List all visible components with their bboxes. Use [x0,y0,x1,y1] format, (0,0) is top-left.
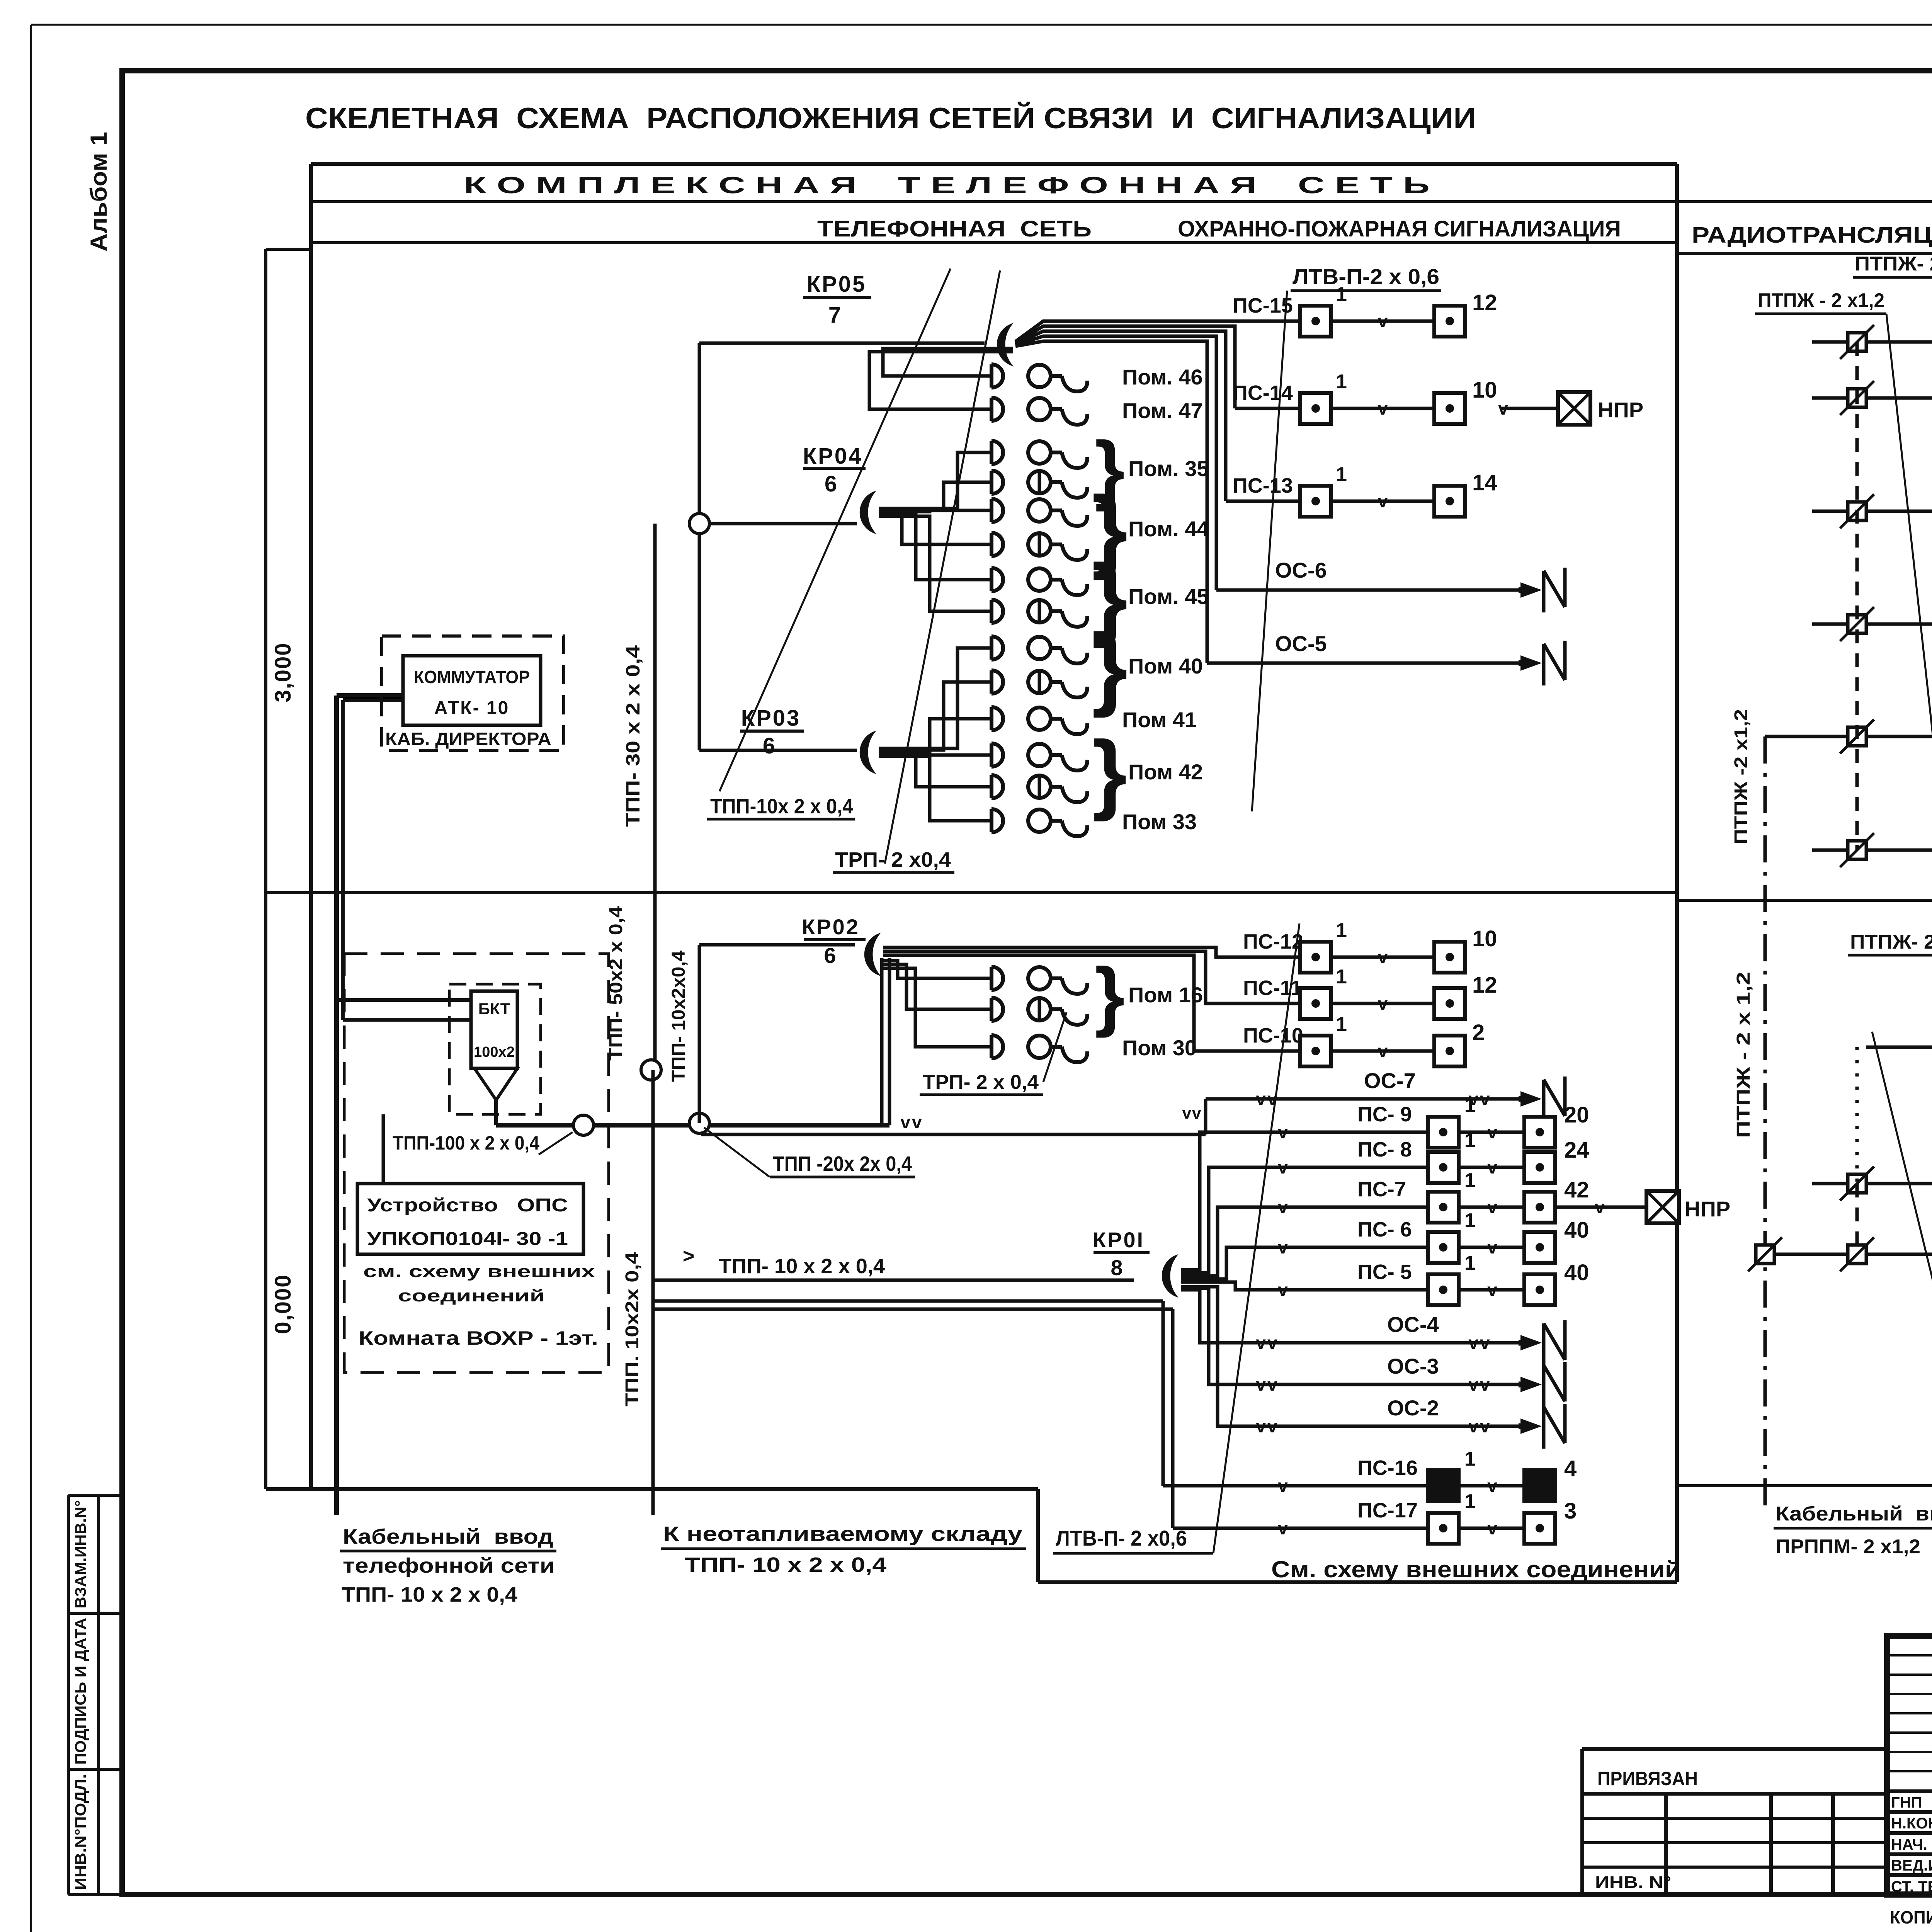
svg-text:v: v [1487,1280,1497,1300]
svg-text:БКТ: БКТ [478,1000,510,1018]
svg-text:v: v [1378,1041,1388,1061]
svg-text:КР05: КР05 [807,272,867,297]
svg-text:v: v [1378,398,1388,418]
svg-text:ПТПЖ- 2 х 0,6: ПТПЖ- 2 х 0,6 [1850,931,1932,953]
svg-text:v: v [1278,1157,1288,1177]
svg-text:ПС-7: ПС-7 [1357,1178,1406,1201]
svg-text:14: 14 [1472,470,1497,495]
svg-text:ПС-14: ПС-14 [1233,381,1293,405]
svg-text:ИНВ.N°ПОДЛ.: ИНВ.N°ПОДЛ. [72,1774,89,1890]
svg-text:1: 1 [1336,371,1347,393]
svg-text:НПР: НПР [1685,1197,1730,1221]
svg-text:К О М П Л Е К С Н А Я Т Е Л: К О М П Л Е К С Н А Я Т Е Л Е Ф О Н Н А … [464,172,1430,198]
svg-text:v: v [1595,1197,1605,1217]
svg-text:3: 3 [1564,1498,1577,1524]
svg-text:НПР: НПР [1598,398,1643,422]
svg-text:СТ. ТЕХН.: СТ. ТЕХН. [1891,1878,1932,1895]
svg-text:12: 12 [1472,973,1497,998]
svg-text:ИНВ. N°: ИНВ. N° [1595,1873,1671,1892]
svg-text:6: 6 [824,943,836,968]
svg-text:КР03: КР03 [741,706,801,731]
svg-text:v: v [1487,1122,1497,1142]
svg-text:КР0I: КР0I [1093,1228,1145,1252]
svg-text:ОС-4: ОС-4 [1387,1312,1439,1337]
svg-text:1: 1 [1464,1094,1476,1117]
svg-text:Пом. 47: Пом. 47 [1122,398,1203,423]
svg-text:1: 1 [1464,1490,1476,1513]
svg-text:См. схему внешних соединений: См. схему внешних соединений [1271,1556,1681,1582]
svg-text:ПРИВЯЗАН: ПРИВЯЗАН [1597,1768,1698,1789]
svg-text:ПС-10: ПС-10 [1243,1024,1303,1047]
svg-text:6: 6 [763,733,775,759]
svg-text:0,000: 0,000 [270,1274,296,1334]
svg-text:Пом 41: Пом 41 [1122,707,1197,732]
svg-text:УПКОП0104I- 30 -1: УПКОП0104I- 30 -1 [367,1229,568,1249]
svg-text:ЛТВ-П-2 х 0,6: ЛТВ-П-2 х 0,6 [1293,264,1439,289]
svg-text:ВЕД.ИНЖ: ВЕД.ИНЖ [1891,1857,1932,1874]
svg-text:100х2: 100х2 [474,1044,515,1060]
svg-text:vv: vv [1256,1416,1279,1436]
svg-text:1: 1 [1336,1013,1347,1036]
svg-text:vv: vv [1468,1333,1491,1353]
svg-text:1: 1 [1336,919,1347,942]
svg-text:ПС-13: ПС-13 [1233,474,1293,497]
svg-text:Кабельный ввод: Кабельный ввод [343,1525,553,1548]
svg-text:}: } [1092,723,1127,822]
svg-text:Устройство ОПС: Устройство ОПС [367,1195,568,1216]
svg-text:1: 1 [1464,1252,1476,1274]
svg-text:РАДИОТРАНСЛЯЦИОННАЯ СЕТЬ: РАДИОТРАНСЛЯЦИОННАЯ СЕТЬ [1692,223,1932,248]
svg-text:vv: vv [1468,1374,1491,1395]
svg-text:ПТПЖ- 2 х0,6: ПТПЖ- 2 х0,6 [1855,253,1932,275]
svg-text:ОС-3: ОС-3 [1387,1354,1439,1378]
svg-text:3,000: 3,000 [270,642,296,702]
svg-text:40: 40 [1564,1218,1589,1243]
svg-text:соединений: соединений [398,1286,545,1305]
svg-text:v: v [1278,1476,1288,1496]
svg-text:ТПП- 30 х 2 х 0,4: ТПП- 30 х 2 х 0,4 [622,645,644,827]
svg-text:Пом. 35: Пом. 35 [1128,456,1209,481]
svg-text:ТРП- 2 х0,4: ТРП- 2 х0,4 [835,848,951,871]
svg-text:КОММУТАТОР: КОММУТАТОР [414,667,530,687]
svg-text:Альбом 1: Альбом 1 [86,132,112,252]
svg-text:АТК- 10: АТК- 10 [434,698,510,718]
svg-text:1: 1 [1464,1209,1476,1232]
svg-text:10: 10 [1472,378,1497,403]
svg-text:v: v [1378,311,1388,331]
svg-text:4: 4 [1564,1456,1577,1481]
svg-text:ТПП- 10 х 2 х 0,4: ТПП- 10 х 2 х 0,4 [719,1255,885,1278]
svg-text:Пом. 45: Пом. 45 [1128,584,1209,609]
svg-text:vv: vv [1182,1104,1202,1122]
svg-text:v: v [1278,1280,1288,1300]
svg-text:ПС- 6: ПС- 6 [1357,1218,1412,1241]
svg-text:v: v [1378,947,1388,967]
svg-text:v: v [1378,491,1388,511]
svg-text:Пом. 44: Пом. 44 [1128,517,1209,541]
svg-text:v: v [1487,1157,1497,1177]
svg-text:v: v [1378,993,1388,1014]
svg-text:см. схему внешних: см. схему внешних [363,1262,595,1281]
svg-text:v: v [1278,1237,1288,1257]
svg-text:ТПП. 10х2х 0,4: ТПП. 10х2х 0,4 [622,1252,643,1406]
svg-text:КАБ. ДИРЕКТОРА: КАБ. ДИРЕКТОРА [385,729,551,749]
svg-text:v: v [1278,1197,1288,1217]
svg-text:ТПП- 10х2х0,4: ТПП- 10х2х0,4 [668,951,689,1082]
svg-text:ПС- 9: ПС- 9 [1357,1103,1412,1126]
svg-text:телефонной сети: телефонной сети [343,1554,555,1577]
svg-text:ПС-16: ПС-16 [1357,1456,1418,1480]
svg-text:1: 1 [1464,1129,1476,1152]
svg-text:Пом. 46: Пом. 46 [1122,365,1203,389]
svg-text:40: 40 [1564,1260,1589,1285]
svg-text:ПТПЖ - 2 х1,2: ПТПЖ - 2 х1,2 [1758,289,1884,312]
svg-text:ПТПЖ -2 х1,2: ПТПЖ -2 х1,2 [1731,709,1752,844]
svg-text:2: 2 [1472,1020,1485,1045]
svg-text:7: 7 [828,303,841,328]
svg-text:ПС- 5: ПС- 5 [1357,1260,1412,1284]
svg-text:vv: vv [900,1112,923,1132]
svg-text:1: 1 [1464,1169,1476,1192]
svg-text:v: v [1487,1518,1497,1538]
svg-text:ПС-11: ПС-11 [1243,976,1302,1000]
svg-text:20: 20 [1564,1102,1589,1128]
svg-text:ВЗАМ.ИНВ.N°: ВЗАМ.ИНВ.N° [72,1500,89,1609]
svg-text:СКЕЛЕТНАЯ СХЕМА РАСПОЛОЖЕНИЯ: СКЕЛЕТНАЯ СХЕМА РАСПОЛОЖЕНИЯ СЕТЕЙ СВЯЗИ… [305,102,1476,135]
svg-text:v: v [1487,1197,1497,1217]
svg-text:vv: vv [1256,1374,1279,1395]
svg-text:ЛТВ-П- 2 х0,6: ЛТВ-П- 2 х0,6 [1056,1526,1187,1550]
svg-text:10: 10 [1472,926,1497,951]
svg-text:ОС-6: ОС-6 [1275,558,1327,582]
svg-text:Комната ВОХР - 1эт.: Комната ВОХР - 1эт. [359,1327,598,1349]
svg-text:ТЕЛЕФОННАЯ СЕТЬ: ТЕЛЕФОННАЯ СЕТЬ [817,216,1092,241]
svg-text:Кабельный ввод радиосети: Кабельный ввод радиосети [1776,1503,1932,1525]
svg-text:ОХРАННО-ПОЖАРНАЯ СИГНАЛИЗАЦИЯ: ОХРАННО-ПОЖАРНАЯ СИГНАЛИЗАЦИЯ [1178,216,1621,241]
svg-text:Пом 30: Пом 30 [1122,1036,1197,1060]
svg-text:НАЧ. ОТД: НАЧ. ОТД [1891,1836,1932,1853]
svg-text:Пом 42: Пом 42 [1128,760,1203,784]
svg-text:ПС-12: ПС-12 [1243,930,1303,953]
svg-text:Н.КОНТР.: Н.КОНТР. [1891,1815,1932,1832]
svg-text:ОС-2: ОС-2 [1387,1396,1439,1420]
svg-text:42: 42 [1564,1177,1589,1202]
svg-text:vv: vv [1468,1416,1491,1436]
svg-text:ТПП- 10 х 2 х 0,4: ТПП- 10 х 2 х 0,4 [342,1583,517,1606]
svg-text:КОПИРОВАЛ СЕМАХИНА: КОПИРОВАЛ СЕМАХИНА [1890,1907,1932,1927]
svg-text:}: } [1095,952,1125,1038]
svg-text:ТПП -20х 2х 0,4: ТПП -20х 2х 0,4 [773,1152,912,1175]
svg-text:ТПП- 50х2 х 0,4: ТПП- 50х2 х 0,4 [606,906,626,1061]
svg-text:v: v [1487,1476,1497,1496]
svg-text:v: v [1278,1518,1288,1538]
svg-text:ТПП-100 х 2 х 0,4: ТПП-100 х 2 х 0,4 [393,1132,539,1154]
svg-text:Пом 33: Пом 33 [1122,810,1197,834]
svg-text:ТПП-10х 2 х 0,4: ТПП-10х 2 х 0,4 [710,795,853,818]
svg-text:6: 6 [825,471,837,497]
svg-text:}: } [1092,614,1128,718]
svg-text:v: v [1487,1237,1497,1257]
svg-text:ТПП- 10 х 2 х 0,4: ТПП- 10 х 2 х 0,4 [685,1553,886,1577]
svg-text:8: 8 [1111,1255,1122,1280]
svg-text:ТРП- 2 х 0,4: ТРП- 2 х 0,4 [923,1071,1039,1094]
svg-text:1: 1 [1464,1448,1476,1470]
svg-text:Пом 40: Пом 40 [1128,654,1203,678]
svg-text:ПС-17: ПС-17 [1357,1499,1418,1522]
svg-text:v: v [1278,1122,1288,1142]
svg-text:ГНП: ГНП [1891,1794,1922,1811]
svg-text:ОС-7: ОС-7 [1364,1068,1416,1093]
svg-text:ПРППМ- 2 х1,2: ПРППМ- 2 х1,2 [1776,1536,1920,1558]
svg-text:ПТПЖ - 2 х 1,2: ПТПЖ - 2 х 1,2 [1733,972,1754,1138]
svg-text:ПОДПИСЬ И ДАТА: ПОДПИСЬ И ДАТА [72,1618,89,1765]
svg-text:Пом 16: Пом 16 [1128,983,1203,1007]
svg-text:КР04: КР04 [803,444,863,469]
svg-text:ПС-15: ПС-15 [1233,294,1293,317]
svg-text:1: 1 [1336,463,1347,486]
svg-text:КР02: КР02 [802,915,860,939]
svg-text:К неотапливаемому складу: К неотапливаемому складу [663,1522,1022,1546]
svg-text:>: > [683,1245,694,1267]
svg-text:1: 1 [1336,966,1347,988]
svg-text:ОС-5: ОС-5 [1275,631,1327,656]
svg-text:24: 24 [1564,1138,1589,1163]
svg-text:vv: vv [1256,1333,1279,1353]
svg-text:ПС- 8: ПС- 8 [1357,1138,1412,1161]
svg-text:12: 12 [1472,290,1497,315]
